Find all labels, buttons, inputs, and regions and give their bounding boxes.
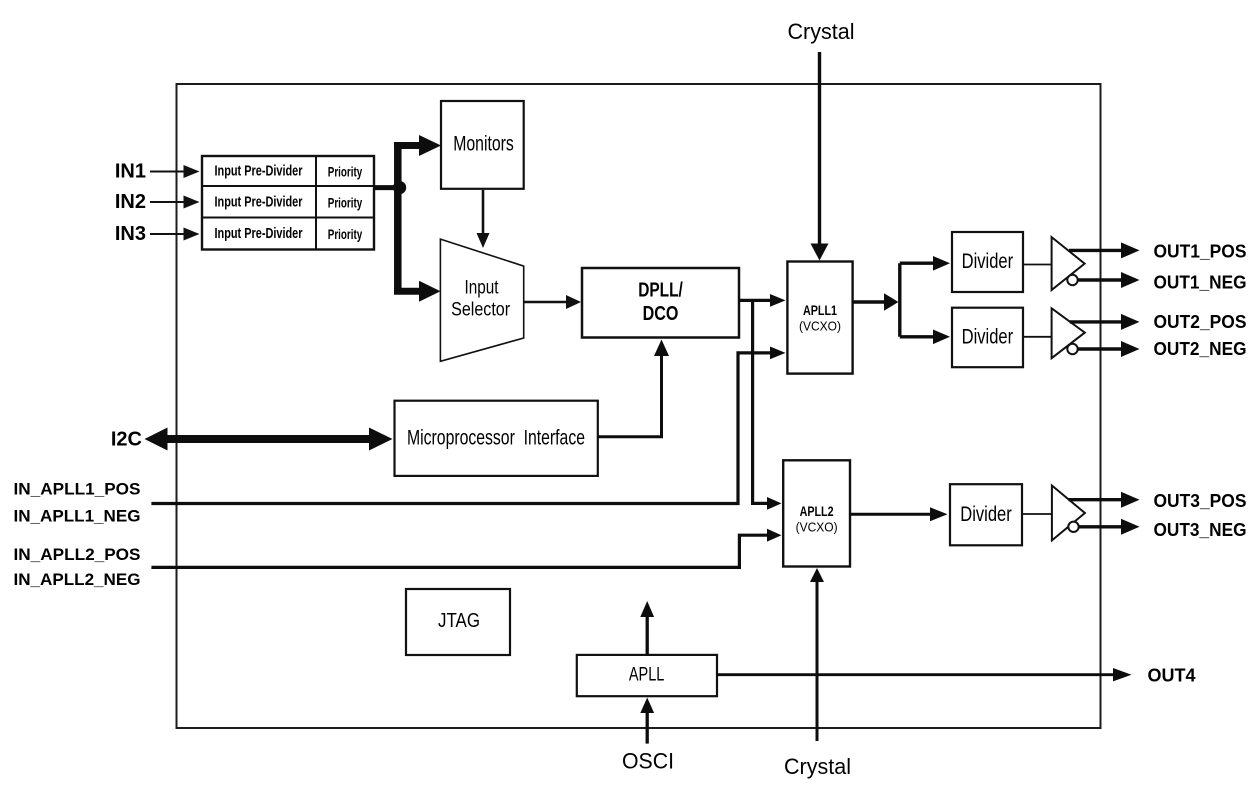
wire thick selection bus [374, 135, 441, 302]
wire IN_APLL1 to APLL1 input2 [151, 347, 785, 504]
svg-text:DCO: DCO [643, 303, 679, 325]
block Divider 1 [952, 232, 1023, 292]
svg-text:Input Pre-Divider: Input Pre-Divider [215, 226, 303, 242]
svg-text:APLL1: APLL1 [803, 303, 837, 318]
block Input Selector [440, 239, 523, 361]
svg-text:IN2: IN2 [115, 191, 146, 213]
block JTAG [406, 589, 510, 655]
svg-text:Monitors: Monitors [453, 132, 514, 156]
wire I2C bidirectional [145, 428, 393, 451]
block Divider 2 [952, 308, 1023, 368]
block Microprocessor Interface [395, 401, 598, 476]
svg-text:Microprocessor Interface: Microprocessor Interface [407, 426, 585, 449]
svg-text:IN3: IN3 [115, 223, 146, 245]
svg-text:OUT4: OUT4 [1148, 666, 1196, 686]
svg-text:APLL: APLL [629, 665, 665, 686]
block Input Pre-Divider / Priority table [202, 156, 374, 250]
svg-text:OUT3_NEG: OUT3_NEG [1154, 520, 1247, 540]
wire divider1 to buffer1 [1023, 264, 1052, 266]
svg-text:JTAG: JTAG [438, 609, 480, 632]
op-amp block APLL2 [783, 460, 850, 566]
svg-text:OUT1_NEG: OUT1_NEG [1154, 273, 1247, 293]
svg-text:Input: Input [465, 278, 500, 299]
wire IN2 arrow [150, 196, 200, 209]
wire APLL up arrow [640, 601, 654, 655]
svg-text:OUT3_POS: OUT3_POS [1154, 491, 1247, 511]
svg-text:Divider: Divider [962, 250, 1014, 273]
inversion bubble U3 [1068, 522, 1078, 532]
svg-text:IN1: IN1 [115, 161, 146, 183]
svg-text:IN_APLL1_NEG: IN_APLL1_NEG [14, 507, 141, 526]
svg-text:Divider: Divider [960, 503, 1012, 526]
svg-text:Crystal: Crystal [784, 754, 851, 779]
wire OSCI to APLL [640, 698, 654, 744]
buffer U2 [1052, 308, 1085, 358]
svg-text:OSCI: OSCI [622, 749, 674, 774]
svg-text:(VCXO): (VCXO) [796, 521, 838, 535]
block DPLL/DCO [582, 268, 739, 338]
wire APLL1 to dividers [853, 256, 950, 344]
svg-text:IN_APLL2_POS: IN_APLL2_POS [14, 545, 141, 564]
svg-text:IN_APLL1_POS: IN_APLL1_POS [14, 480, 141, 499]
wire Monitors to selector [477, 190, 490, 248]
block APLL [577, 655, 717, 696]
svg-text:(VCXO): (VCXO) [799, 320, 841, 334]
svg-text:I2C: I2C [111, 429, 142, 451]
svg-text:Selector: Selector [451, 300, 511, 321]
block Monitors [441, 101, 524, 189]
wire DPLL to APLL1 input1 [739, 294, 786, 307]
svg-text:APLL2: APLL2 [800, 504, 834, 519]
wire OUT1_NEG [1078, 272, 1140, 288]
svg-text:Priority: Priority [328, 194, 363, 210]
svg-text:OUT1_POS: OUT1_POS [1154, 242, 1247, 262]
wire interface to DPLL [598, 340, 669, 437]
inversion bubble U1 [1067, 275, 1077, 285]
junction dot [393, 181, 406, 194]
chip boundary [177, 84, 1101, 728]
wire OUT1_POS [1069, 242, 1140, 258]
wire Crystal bottom to APLL2 [810, 568, 824, 741]
wire Crystal to APLL1 [811, 52, 829, 261]
wire IN3 arrow [150, 228, 200, 241]
wire selector to DPLL [525, 295, 582, 309]
wire DPLL branch down to APLL2 input1 [753, 300, 782, 509]
svg-text:Input Pre-Divider: Input Pre-Divider [215, 164, 303, 180]
wire OUT4 [717, 668, 1132, 681]
svg-text:Priority: Priority [328, 164, 363, 180]
wire divider3 to buffer3 [1022, 513, 1052, 515]
svg-text:DPLL/: DPLL/ [638, 280, 683, 302]
wire OUT2_POS [1070, 314, 1140, 330]
wire OUT3_NEG [1079, 519, 1140, 535]
svg-text:OUT2_NEG: OUT2_NEG [1154, 339, 1247, 359]
wire OUT2_NEG [1078, 341, 1140, 357]
buffer U1 [1052, 237, 1085, 290]
svg-text:OUT2_POS: OUT2_POS [1154, 312, 1247, 332]
block Divider 3 [950, 484, 1022, 545]
buffer U3 [1052, 486, 1085, 541]
svg-text:IN_APLL2_NEG: IN_APLL2_NEG [14, 570, 141, 589]
inversion bubble U2 [1067, 344, 1077, 354]
svg-text:Crystal: Crystal [788, 19, 855, 44]
wire IN1 arrow [150, 165, 200, 178]
wire OUT3_POS [1069, 492, 1140, 508]
wire IN_APLL2 to APLL2 input2 [151, 529, 781, 568]
wire APLL2 to divider3 [850, 507, 948, 521]
svg-text:Divider: Divider [962, 326, 1014, 349]
op-amp block APLL1 [787, 262, 852, 374]
svg-text:Priority: Priority [328, 226, 363, 242]
svg-text:Input Pre-Divider: Input Pre-Divider [215, 194, 303, 210]
wire divider2 to buffer2 [1023, 336, 1052, 338]
